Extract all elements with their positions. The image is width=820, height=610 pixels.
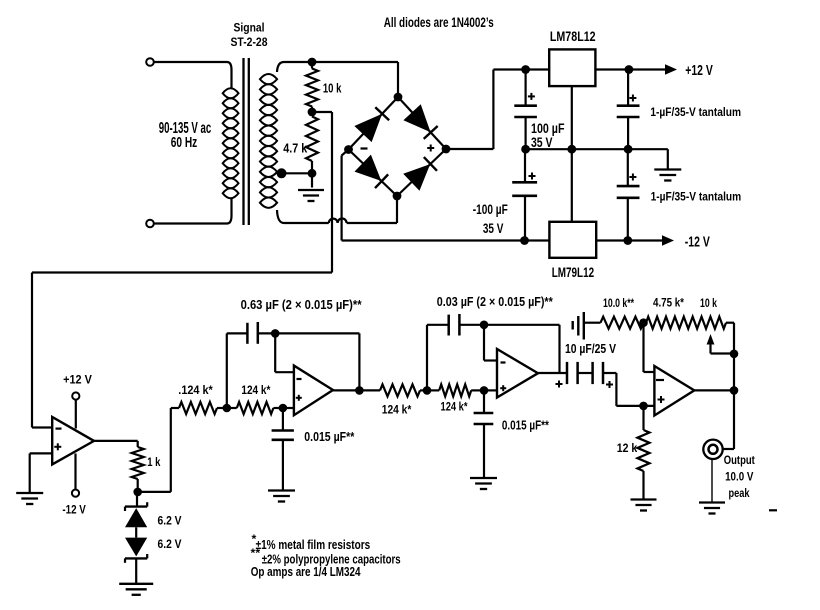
wire -12V output <box>596 239 664 241</box>
wire secondary top to bridge <box>277 62 284 72</box>
node stage2 fb/minus <box>480 321 489 330</box>
capacitor C8 0.015uF stage2 <box>483 390 485 413</box>
wire signal drop vertical <box>331 112 333 273</box>
U3 plus sign <box>500 387 506 389</box>
svg-text:+12 V: +12 V <box>685 63 713 79</box>
svg-text:12 k: 12 k <box>617 441 638 455</box>
node U4 plus input <box>639 402 648 411</box>
diode D1 top-left <box>355 115 381 142</box>
plus mark C1 <box>528 95 535 97</box>
capacitor C2 100uF bottom <box>524 149 526 182</box>
wire stage1 fb to output <box>275 332 359 334</box>
wire signal to U1 <box>32 271 332 273</box>
svg-text:124 k*: 124 k* <box>382 402 412 416</box>
wire stage2 fb to output <box>484 324 560 326</box>
svg-text:-12 V: -12 V <box>62 503 86 517</box>
resistor R6 124 k third <box>380 384 420 396</box>
ground U1 input <box>16 492 43 494</box>
node bridge right <box>442 145 451 154</box>
diode D2 top-right <box>404 105 429 131</box>
wire stage2 feedback up <box>426 325 428 391</box>
resistor R7 124 k fourth <box>439 384 471 396</box>
svg-text:peak: peak <box>729 486 750 500</box>
transformer T1 primary winding <box>223 88 239 98</box>
bridge minus sign <box>361 147 368 149</box>
wire U3 minus input <box>483 325 485 361</box>
node regulator input <box>521 65 530 74</box>
wire stage1 feedback up <box>226 333 228 408</box>
svg-text:Op amps are 1/4 LM324: Op amps are 1/4 LM324 <box>251 564 361 579</box>
U2 minus sign <box>297 378 302 380</box>
U4 minus sign <box>656 379 664 381</box>
svg-text:10.0 V: 10.0 V <box>725 470 754 484</box>
plus mark C9 <box>556 383 563 385</box>
svg-text:124 k*: 124 k* <box>241 383 270 397</box>
node stage2 feedback <box>423 386 432 395</box>
svg-text:-100 µF: -100 µF <box>473 202 508 217</box>
diode D4 bottom-right <box>404 165 429 190</box>
svg-text:1-µF/35-V tantalum: 1-µF/35-V tantalum <box>651 191 742 204</box>
svg-text:LM78L12: LM78L12 <box>550 29 596 45</box>
svg-text:6.2 V: 6.2 V <box>158 513 183 527</box>
wire pot right leg <box>733 323 735 391</box>
node bridge bottom <box>393 192 402 201</box>
node 4.7k bottom <box>308 169 317 178</box>
wire regulator ground leg <box>571 86 573 222</box>
capacitor C5 0.63uF feedback <box>246 323 249 344</box>
capacitor C6 0.015uF stage1 <box>282 408 284 431</box>
wire U1 plus input to ground <box>30 452 53 454</box>
bridge plus sign <box>427 147 434 149</box>
transformer T1 core <box>242 58 244 225</box>
pot wiper arrow <box>707 334 715 345</box>
svg-text:+12 V: +12 V <box>63 373 92 387</box>
terminal +12 V supply <box>72 392 79 399</box>
stray dash mark <box>769 509 777 511</box>
U2 plus sign <box>296 397 302 399</box>
wire U1 output <box>94 440 138 442</box>
wire bridge minus to negative rail <box>342 149 349 155</box>
ground stage1 cap <box>268 489 295 491</box>
svg-text:124 k*: 124 k* <box>441 399 468 413</box>
svg-text:100 µF: 100 µF <box>531 121 565 136</box>
resistor R11 12 k <box>642 406 644 430</box>
node U2 plus input <box>279 404 288 413</box>
node R8/R9 <box>639 318 648 327</box>
regulator U5 LM78L12 box <box>549 49 595 86</box>
node -12V rail left <box>520 236 529 245</box>
diode D3 bottom-left <box>355 156 380 181</box>
svg-text:4.7 k: 4.7 k <box>283 141 308 156</box>
wire junction to signal drop <box>312 111 332 113</box>
wire bridge plus to regulator input <box>446 148 493 150</box>
svg-text:-12 V: -12 V <box>685 235 710 251</box>
wire +12V output <box>595 68 667 70</box>
node stage1 feedback <box>223 404 232 413</box>
ground zeners <box>135 558 137 583</box>
svg-text:10 k: 10 k <box>700 296 717 310</box>
op-amp U2 <box>294 366 333 416</box>
capacitor C1 100uF top <box>524 70 526 106</box>
svg-text:Output: Output <box>724 453 755 467</box>
node +12V output <box>625 65 634 74</box>
mid ground rail <box>526 148 668 150</box>
resistor R4 124 k first <box>171 407 179 409</box>
node 10k/4.7k junction <box>308 108 317 117</box>
node -12V output <box>623 236 632 245</box>
svg-text:10 µF/25 V: 10 µF/25 V <box>565 341 616 356</box>
terminal bottom-left <box>146 220 154 228</box>
transformer T1 secondary winding <box>260 74 277 84</box>
wire U3 output <box>538 372 567 374</box>
svg-text:±1% metal film resistors: ±1% metal film resistors <box>256 537 371 552</box>
terminal top-left <box>146 58 154 66</box>
node zener tap <box>133 488 142 497</box>
op-amp U1 <box>52 417 94 464</box>
output jack <box>703 440 722 459</box>
wire U2 output <box>333 389 380 391</box>
U3 minus sign <box>501 361 506 363</box>
node U4 output <box>730 386 739 395</box>
node U2 output <box>355 386 364 395</box>
bridge arm wires <box>349 97 399 150</box>
svg-text:**: ** <box>251 546 261 560</box>
node mid rail left <box>521 145 530 154</box>
svg-text:4.75 k*: 4.75 k* <box>653 295 684 309</box>
svg-text:0.03 µF (2 × 0.015 µF)**: 0.03 µF (2 × 0.015 µF)** <box>437 294 554 309</box>
resistor R1 10 k <box>311 62 313 69</box>
wire U4 minus input <box>642 323 644 372</box>
wire primary top lead <box>154 61 227 63</box>
node bridge left <box>344 145 353 154</box>
resistor R9 4.75 k and potentiometer R10 10 k <box>644 322 647 324</box>
wire center tap <box>277 172 312 174</box>
svg-text:0.015 µF**: 0.015 µF** <box>502 418 549 433</box>
regulator U6 LM79L12 box <box>549 222 596 258</box>
node secondary-top / 10k <box>308 58 317 67</box>
node mid rail right <box>624 145 633 154</box>
svg-text:LM79L12: LM79L12 <box>552 265 594 281</box>
resistor R2 4.7 k <box>306 117 318 162</box>
U1 plus sign <box>54 446 61 448</box>
node mid rail center <box>567 145 576 154</box>
resistor R3 1 k <box>137 441 139 447</box>
wire U4 output <box>694 389 734 391</box>
node bridge top <box>394 93 403 102</box>
wire U2 minus input <box>274 333 276 372</box>
op-amp U3 <box>497 349 538 398</box>
svg-text:10 k: 10 k <box>323 80 342 95</box>
svg-text:0.015 µF**: 0.015 µF** <box>304 429 354 444</box>
svg-text:0.63 µF (2 × 0.015 µF)**: 0.63 µF (2 × 0.015 µF)** <box>241 297 363 312</box>
wire output to jack <box>733 390 735 449</box>
svg-text:35 V: 35 V <box>531 135 553 150</box>
node stage1 fb/minus <box>271 329 280 338</box>
capacitor C3 tantalum top <box>627 70 629 106</box>
wire bridge top drop <box>397 62 399 94</box>
svg-text:Signal: Signal <box>234 21 265 35</box>
svg-text:ST-2-28: ST-2-28 <box>231 35 268 49</box>
svg-text:.124 k*: .124 k* <box>178 383 213 397</box>
svg-text:60 Hz: 60 Hz <box>171 134 198 151</box>
wire secondary bottom to bridge with double hop <box>277 210 284 223</box>
ground jack <box>711 459 713 502</box>
resistor R5 124 k second <box>237 402 274 414</box>
ground mid rail <box>667 149 669 169</box>
wire tap to first stage riser <box>138 491 171 493</box>
zener D6 6.2 V <box>135 527 137 537</box>
U4 plus sign <box>658 399 665 401</box>
ground center-tap <box>311 173 313 187</box>
plus mark C3 <box>629 97 636 99</box>
ground stage2 cap <box>470 477 497 479</box>
svg-text:1-µF/35-V tantalum: 1-µF/35-V tantalum <box>650 106 741 119</box>
svg-text:6.2 V: 6.2 V <box>158 537 183 551</box>
plus mark C4 <box>629 176 636 178</box>
op-amp U4 <box>654 366 694 416</box>
capacitor C9 C10 10uF/25V pair <box>566 362 569 384</box>
svg-text:1 k: 1 k <box>147 455 160 469</box>
svg-text:10.0 k**: 10.0 k** <box>603 296 634 310</box>
resistor R8 10.0 k <box>601 317 644 329</box>
wire primary bottom lead <box>154 222 227 224</box>
capacitor C7 0.03uF feedback <box>447 315 450 336</box>
zener D5 6.2 V <box>136 492 138 507</box>
node center tap <box>277 168 287 178</box>
capacitor C11 input bars <box>572 321 574 330</box>
ground 12k <box>631 498 657 500</box>
node U3 plus input <box>480 386 489 395</box>
plus mark C10 <box>606 384 613 386</box>
U1 minus sign <box>56 428 62 430</box>
wire coupling to U4 plus <box>615 373 617 406</box>
capacitor C4 tantalum bottom <box>627 149 629 186</box>
terminal -12 V supply <box>72 490 79 497</box>
node wiper <box>730 350 739 359</box>
svg-text:35 V: 35 V <box>483 221 504 236</box>
svg-text:All diodes are 1N4002’s: All diodes are 1N4002’s <box>384 15 494 31</box>
plus mark C2 <box>529 175 536 177</box>
